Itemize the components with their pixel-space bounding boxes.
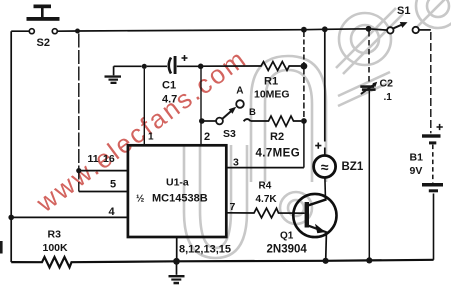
- svg-text:7: 7: [230, 201, 236, 213]
- svg-text:R2: R2: [270, 131, 284, 143]
- svg-text:MC14538B: MC14538B: [152, 193, 208, 205]
- svg-text:U1-a: U1-a: [166, 177, 189, 189]
- svg-text:A: A: [236, 86, 243, 97]
- svg-text:½: ½: [136, 194, 144, 205]
- svg-text:2: 2: [204, 131, 210, 143]
- svg-text:R1: R1: [264, 76, 278, 88]
- svg-text:R3: R3: [48, 229, 62, 241]
- svg-text:B1: B1: [410, 152, 424, 164]
- svg-text:S2: S2: [37, 37, 50, 49]
- svg-text:3: 3: [233, 157, 239, 169]
- svg-text:4: 4: [109, 206, 116, 218]
- svg-text:16: 16: [103, 153, 115, 165]
- svg-text:10MEG: 10MEG: [254, 89, 290, 101]
- svg-text:1: 1: [148, 132, 154, 143]
- svg-text:C1: C1: [162, 80, 176, 92]
- svg-text:4.7: 4.7: [162, 94, 177, 106]
- svg-text:4.7K: 4.7K: [256, 194, 278, 205]
- svg-text:S1: S1: [397, 5, 410, 17]
- svg-text:R4: R4: [259, 181, 272, 192]
- svg-text:Q1: Q1: [280, 231, 294, 242]
- svg-text:B: B: [249, 107, 256, 118]
- svg-text:C2: C2: [380, 78, 394, 90]
- svg-text:5: 5: [110, 179, 116, 191]
- svg-text:BZ1: BZ1: [342, 161, 364, 173]
- svg-text:≈: ≈: [321, 159, 329, 175]
- svg-text:8,12,13,15: 8,12,13,15: [179, 244, 231, 256]
- svg-text:S3: S3: [223, 128, 236, 140]
- svg-text:9V: 9V: [410, 165, 423, 177]
- svg-text:100K: 100K: [43, 242, 69, 254]
- svg-text:11: 11: [88, 153, 99, 165]
- svg-text:.1: .1: [384, 92, 393, 103]
- svg-text:2N3904: 2N3904: [267, 244, 308, 256]
- svg-text:4.7MEG: 4.7MEG: [256, 148, 301, 160]
